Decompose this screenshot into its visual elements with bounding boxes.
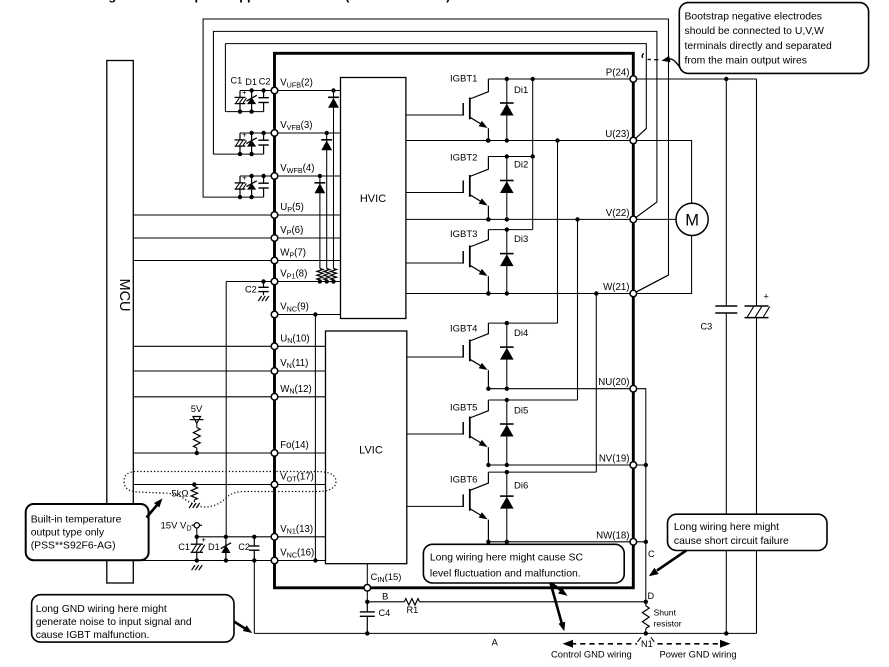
svg-text:U(23): U(23): [605, 129, 629, 140]
svg-text:VN1​(13): VN1​(13): [280, 524, 313, 536]
pin UP(5): [271, 212, 278, 219]
svg-text:cause short circuit failure: cause short circuit failure: [674, 536, 789, 547]
svg-text:Di2: Di2: [514, 160, 528, 171]
bootstrap note arrow with dashes: [669, 59, 681, 69]
wire WN input: [133, 396, 325, 398]
wire VOT output: [133, 484, 325, 486]
wire VNC vertical link: [314, 315, 316, 561]
wire VUFB net: [240, 90, 341, 92]
svg-text:+: +: [201, 536, 206, 545]
svg-text:Long GND wiring here might: Long GND wiring here might: [36, 604, 167, 615]
capacitor C2 (bootstrap VVFB): [263, 133, 265, 140]
wire loop U-phase bootstrap return (inner): [225, 44, 646, 141]
capacitor electrolytic (DC bus): [745, 305, 769, 307]
zener D1 (bootstrap VUFB): [251, 91, 253, 98]
node IGBT3 emitter junction: [486, 291, 490, 295]
wire P rail: [488, 78, 756, 80]
transistor IGBT2: [406, 192, 463, 194]
svg-text:Di1: Di1: [514, 85, 528, 96]
node IGBT6 emitter junction: [486, 540, 490, 544]
IC LVIC (low-voltage gate driver): [326, 331, 407, 564]
wire P feed to IGBT2/IGBT3: [532, 79, 534, 230]
capacitor C2 (VP1 decoupling): [261, 279, 265, 283]
pin VUFB(2): [271, 87, 278, 94]
node Fo pull-up junction: [195, 451, 199, 455]
svg-text:Di5: Di5: [514, 406, 528, 417]
svg-text:VVFB​(3): VVFB​(3): [280, 120, 312, 132]
capacitor C1 (bootstrap VWFB): [239, 176, 241, 183]
pin U(23): [630, 137, 637, 144]
wire NV to NW link: [645, 465, 647, 542]
svg-text:+: +: [764, 291, 769, 301]
pin P(24): [630, 76, 637, 83]
svg-text:HVIC: HVIC: [360, 193, 386, 205]
wire IGBT4 collector rail: [488, 322, 557, 324]
svg-text:VWFB​(4): VWFB​(4): [280, 163, 314, 175]
transistor IGBT4: [407, 356, 463, 358]
bootstrap diode (VWFB phase) with series resistor: [319, 176, 321, 269]
pin WP(7): [271, 257, 278, 264]
transistor IGBT5: [407, 433, 463, 435]
wire VNC(16) ground net: [133, 560, 325, 562]
svg-text:C2: C2: [238, 542, 250, 552]
svg-text:Long wiring here might: Long wiring here might: [674, 522, 779, 533]
wire NW rail: [488, 541, 645, 543]
node N1: [644, 631, 648, 635]
svg-text:UN​(10): UN​(10): [280, 334, 309, 346]
resistor 5k-ohm on VOT: [192, 482, 196, 486]
svg-text:from the main output wires: from the main output wires: [685, 56, 807, 67]
junction dots bootstrap VVFB: [249, 131, 253, 135]
wire loop V-phase bootstrap return (middle): [213, 31, 657, 219]
wire U bootstrap diagonal: [633, 129, 646, 141]
ground (C1): [192, 565, 195, 570]
svg-text:Long wiring here might cause S: Long wiring here might cause SC: [430, 553, 584, 564]
svg-text:VOT​(17): VOT​(17): [280, 472, 314, 484]
svg-text:Built-in temperature: Built-in temperature: [31, 515, 122, 526]
svg-text:Control GND wiring: Control GND wiring: [551, 649, 632, 660]
wire DC bus C3 branch: [725, 79, 727, 306]
svg-text:NV(19): NV(19): [599, 454, 630, 465]
bootstrap block for VUFB: rails: [225, 111, 263, 113]
diode Di3: [506, 230, 508, 294]
svg-text:C3: C3: [701, 322, 713, 332]
resistor 5V pull-up: [196, 423, 198, 427]
wire B to R1: [367, 601, 404, 603]
capacitor C2 (bootstrap VWFB): [263, 176, 265, 183]
transistor IGBT6: [407, 505, 463, 507]
pin VVFB(3): [271, 130, 278, 137]
wire VP1 supply: [226, 281, 340, 283]
svg-text:C1: C1: [178, 542, 190, 552]
svg-text:VUFB​(2): VUFB​(2): [280, 78, 313, 90]
svg-text:Di4: Di4: [514, 328, 528, 339]
wire IGBT3 collector rail: [488, 229, 532, 231]
junction dots bootstrap VUFB: [249, 88, 253, 92]
svg-text:R1: R1: [407, 605, 419, 615]
junction dots bootstrap VWFB: [249, 174, 253, 178]
svg-text:Fo(14): Fo(14): [280, 440, 309, 451]
wire V feed to IGBT5: [577, 219, 579, 400]
pin UN(10): [271, 343, 278, 350]
wire VWFB net: [240, 175, 341, 177]
capacitor C3: [715, 305, 737, 307]
svg-text:C: C: [648, 549, 655, 559]
wire W phase rail: [406, 236, 692, 294]
wire NU to NV link: [633, 389, 646, 465]
pin NU(20): [630, 385, 637, 392]
svg-text:+: +: [242, 88, 247, 97]
svg-text:NU(20): NU(20): [598, 377, 629, 388]
wire IGBT6 collector rail: [488, 471, 596, 473]
wire W feed to IGBT6: [595, 294, 597, 473]
capacitor C1 (15V electrolytic): [196, 537, 198, 544]
power GND wiring dashed arrow: [658, 643, 723, 645]
wire loop W-phase bootstrap return (outer): [203, 19, 668, 294]
transistor IGBT1: [406, 114, 463, 116]
SC note arrow to A rail: [551, 583, 562, 624]
svg-text:Figure 11. Example of applicat: Figure 11. Example of application circui…: [97, 0, 450, 3]
svg-text:N1: N1: [641, 639, 653, 649]
diode Di4: [506, 323, 508, 389]
svg-text:C4: C4: [379, 608, 391, 618]
wire W bootstrap diagonal: [633, 275, 668, 294]
svg-text:Bootstrap negative electrodes: Bootstrap negative electrodes: [685, 12, 822, 23]
wire V phase rail: [406, 218, 676, 220]
pin NV(19): [630, 462, 637, 469]
svg-text:(PSS**S92F6-AG): (PSS**S92F6-AG): [31, 541, 116, 552]
wire NU rail: [488, 388, 633, 390]
svg-text:CIN​(15): CIN​(15): [371, 572, 402, 584]
svg-text:cause IGBT malfunction.: cause IGBT malfunction.: [36, 630, 150, 641]
svg-text:D1: D1: [245, 77, 257, 87]
bootstrap block for VVFB: rails: [213, 153, 263, 155]
pin VP(6): [271, 235, 278, 242]
resistor R1: [404, 599, 419, 605]
svg-text:Shunt: Shunt: [654, 608, 677, 618]
wire VP input: [133, 237, 340, 239]
node VNC(9) junction: [313, 312, 317, 316]
zener D1 (bootstrap VWFB): [251, 176, 253, 183]
svg-text:IGBT6: IGBT6: [450, 475, 477, 486]
IPM module outline: [275, 53, 634, 588]
SC note arrow to B wire: [551, 583, 562, 591]
pin VOT(17): [271, 481, 278, 488]
svg-text:level fluctuation and malfunct: level fluctuation and malfunction.: [430, 568, 581, 579]
wire node C segment: [645, 542, 647, 602]
wire VP1 feed vertical: [225, 282, 227, 537]
pin V(22): [630, 216, 637, 223]
capacitor C1 (bootstrap VVFB): [239, 133, 241, 140]
pin VNC(9): [271, 311, 278, 318]
wire VVFB net: [240, 132, 341, 134]
capacitor C2 (15V): [252, 535, 256, 539]
wire U feed to IGBT4: [557, 141, 559, 324]
pin W(21): [630, 290, 637, 297]
diode Di6: [506, 472, 508, 542]
transistor IGBT3: [406, 262, 463, 264]
node VNC(16) junction: [313, 558, 317, 562]
svg-text:WP​(7): WP​(7): [280, 248, 306, 260]
wire WP input: [133, 260, 340, 262]
wire V bootstrap diagonal: [633, 202, 657, 219]
wire IGBT2 collector rail: [488, 156, 532, 158]
svg-text:VNC​(9): VNC​(9): [280, 302, 309, 314]
svg-text:P(24): P(24): [606, 68, 630, 79]
svg-text:C2: C2: [245, 284, 257, 294]
wire IGBT5 collector rail: [488, 399, 577, 401]
svg-text:output type only: output type only: [31, 528, 105, 539]
svg-text:terminals directly and separat: terminals directly and separated: [685, 41, 832, 52]
IC HVIC (high-voltage gate driver): [341, 78, 406, 319]
wire DC bus electrolytic branch: [756, 79, 758, 306]
node D: [644, 600, 648, 604]
ground (5k resistor): [189, 503, 192, 508]
node IGBT1 emitter junction: [486, 138, 490, 142]
node VD junction: [195, 535, 199, 539]
built-in note arrow: [147, 505, 158, 518]
svg-text:Di6: Di6: [514, 481, 528, 492]
svg-text:B: B: [382, 592, 388, 603]
svg-text:5V: 5V: [191, 404, 203, 415]
pin VN(11): [271, 368, 278, 375]
svg-text:IGBT2: IGBT2: [450, 152, 477, 163]
wire R1 to D: [420, 601, 646, 603]
note box: SC level fluctuation: [423, 544, 624, 583]
svg-text:NW(18): NW(18): [596, 530, 629, 541]
note box: bootstrap negative electrodes: [679, 3, 868, 74]
svg-text:resistor: resistor: [654, 619, 682, 629]
svg-text:generate noise to input signal: generate noise to input signal and: [36, 617, 192, 628]
shunt resistor: [645, 602, 647, 606]
wire UP input: [133, 214, 340, 216]
svg-text:+: +: [242, 131, 247, 140]
svg-text:D: D: [648, 591, 655, 601]
wire NV rail: [488, 464, 645, 466]
svg-text:Di3: Di3: [514, 234, 528, 245]
svg-text:VP​(6): VP​(6): [280, 225, 303, 237]
svg-text:should be connected to U,V,W: should be connected to U,V,W: [685, 26, 825, 37]
pin VWFB(4): [271, 173, 278, 180]
svg-text:MCU: MCU: [116, 278, 132, 311]
wire U phase rail: [406, 141, 692, 204]
node IGBT4 emitter junction: [486, 387, 490, 391]
svg-text:C2: C2: [259, 77, 271, 87]
wire VN1 supply: [197, 536, 326, 538]
pin VNC(16): [271, 557, 278, 564]
wire CIN: [366, 564, 368, 588]
ground (VP1 C2): [258, 296, 261, 301]
long GND note arrow: [234, 622, 246, 629]
control GND wiring dashed arrow: [571, 643, 637, 645]
note box: short circuit failure: [668, 514, 828, 550]
dotted highlight around VOT wiring: [124, 472, 336, 508]
svg-text:IGBT4: IGBT4: [450, 324, 477, 335]
svg-text:5kΩ: 5kΩ: [171, 489, 188, 500]
zener D1 (15V clamp): [224, 535, 228, 539]
svg-text:C1: C1: [231, 75, 243, 85]
svg-text:VP1​(8): VP1​(8): [280, 269, 307, 281]
node B: [365, 600, 369, 604]
bootstrap block for VWFB: rails: [203, 196, 264, 198]
svg-text:IGBT1: IGBT1: [450, 74, 477, 85]
diode Di1: [506, 79, 508, 141]
node IGBT5 emitter junction: [486, 463, 490, 467]
wire VN input: [133, 370, 325, 372]
svg-text:WN​(12): WN​(12): [280, 384, 312, 396]
wire UN input: [133, 345, 325, 347]
short-circuit note arrow: [657, 550, 687, 570]
note box: long GND wiring noise: [32, 595, 234, 642]
svg-text:W(21): W(21): [603, 282, 629, 293]
IC MCU: [107, 61, 134, 584]
wire ground rail A: [254, 632, 756, 634]
svg-text:V(22): V(22): [606, 208, 630, 219]
svg-text:15V VD​: 15V VD​: [161, 521, 192, 533]
note box: built-in temperature output: [26, 504, 149, 560]
pin VP1(8): [271, 278, 278, 285]
svg-text:LVIC: LVIC: [359, 445, 383, 457]
wire VNC(9) net: [275, 314, 341, 316]
svg-text:VNC​(16): VNC​(16): [280, 548, 314, 560]
svg-text:Power GND wiring: Power GND wiring: [660, 649, 737, 660]
zener D1 (bootstrap VVFB): [251, 133, 253, 140]
wire Fo output: [133, 452, 325, 454]
pin NW(18): [630, 539, 637, 546]
pin Fo(14): [271, 450, 278, 457]
svg-text:IGBT3: IGBT3: [450, 229, 477, 240]
node IGBT2 emitter junction: [486, 217, 490, 221]
motor M: [676, 203, 708, 235]
capacitor C1 (bootstrap VUFB): [239, 91, 241, 98]
diode Di5: [506, 400, 508, 465]
bootstrap diode (VUFB phase) with series resistor: [333, 91, 335, 269]
pin WN(12): [271, 394, 278, 401]
svg-text:D1: D1: [208, 542, 220, 552]
svg-text:M: M: [685, 211, 699, 229]
svg-text:IGBT5: IGBT5: [450, 403, 477, 414]
svg-text:VN​(11): VN​(11): [280, 358, 308, 370]
wire control GND drop: [253, 561, 255, 634]
capacitor C2 (bootstrap VUFB): [263, 91, 265, 98]
diode Di2: [506, 157, 508, 220]
svg-text:A: A: [492, 638, 499, 649]
bootstrap diode (VVFB phase) with series resistor: [326, 133, 328, 269]
svg-text:UP​(5): UP​(5): [280, 202, 304, 214]
pin VN1(13): [271, 534, 278, 541]
capacitor C4: [366, 602, 368, 612]
svg-text:+: +: [242, 174, 247, 183]
pin CIN(15): [364, 585, 371, 592]
